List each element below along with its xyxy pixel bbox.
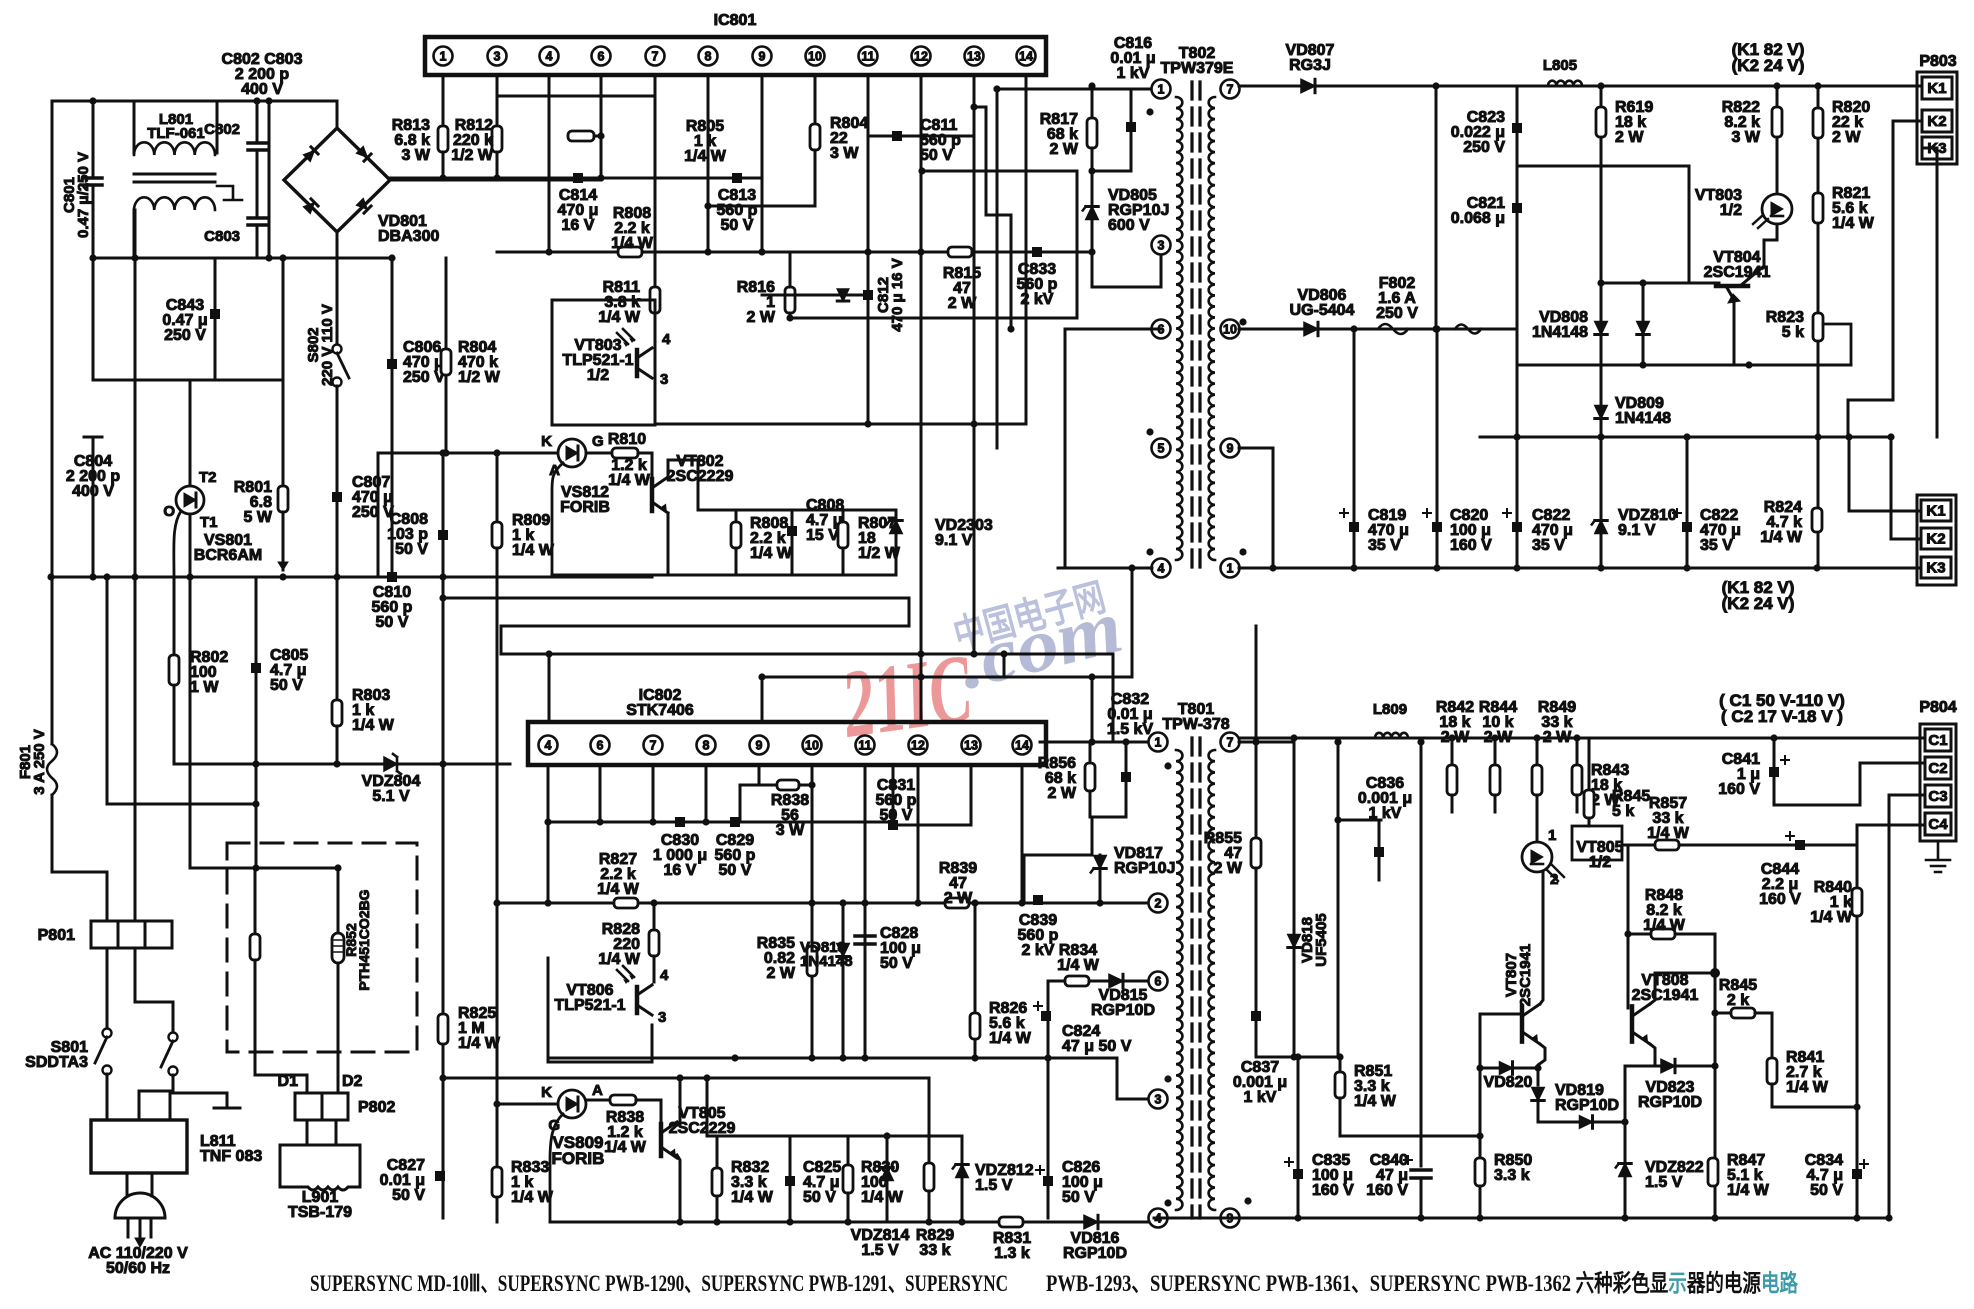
capacitor C837: [1251, 1011, 1261, 1021]
capacitor C827: [435, 1171, 445, 1181]
resistor R848: [1651, 929, 1675, 939]
wire y287: [1092, 286, 1161, 289]
svg-text:R8113.8 k1/4 W: R8113.8 k1/4 W: [598, 279, 641, 326]
node j156: [1885, 1214, 1892, 1221]
wire C804 col: [92, 450, 95, 577]
svg-text:3: 3: [1158, 238, 1165, 252]
wire K2b stub: [1891, 538, 1922, 541]
capacitor C822a: [1512, 522, 1522, 532]
node j18: [252, 800, 259, 807]
wire C832 low: [1125, 782, 1128, 817]
wire VS812 anode: [552, 463, 563, 575]
transformer T801 core: [1190, 738, 1193, 1218]
capacitor C823: [1512, 123, 1522, 133]
wire bus y252c: [972, 251, 1092, 254]
wire R838b r: [636, 1099, 661, 1102]
wire R849 low: [1536, 795, 1539, 842]
node j31: [970, 420, 977, 427]
wire S801b low: [172, 1075, 175, 1091]
wire y453: [378, 452, 557, 455]
node IC801 pin 9: [753, 47, 772, 66]
svg-text:14: 14: [1015, 738, 1029, 752]
wire R856 low: [1089, 791, 1092, 817]
wire x501: [500, 626, 503, 654]
node IC801 pin 14: [1017, 47, 1036, 66]
node j62: [1597, 564, 1604, 571]
node j88: [1122, 738, 1129, 745]
svg-text:R810: R810: [608, 431, 646, 448]
wire pin13 route: [974, 107, 1011, 329]
svg-text:R82933 k: R82933 k: [916, 1227, 954, 1259]
node j23: [493, 174, 500, 181]
wire bus y903: [497, 902, 1154, 905]
zener VD817: [1094, 856, 1106, 869]
wire pin1 drop: [442, 75, 445, 126]
wire pill1 col: [254, 868, 257, 934]
AC plug: [127, 1173, 152, 1196]
wire R834 r: [1089, 980, 1108, 983]
transformer T801 primary winding: [1176, 750, 1182, 1210]
zener VD2303: [890, 521, 902, 534]
wire R845b low: [1588, 818, 1591, 826]
svg-text:VD818UF5405: VD818UF5405: [1299, 913, 1330, 966]
wire R810 left: [586, 452, 612, 455]
svg-text:D1: D1: [278, 1073, 299, 1090]
wire x929: [928, 1078, 931, 1163]
wire bus y1218 right: [1235, 1217, 1890, 1220]
connector P803 K1: [1922, 77, 1952, 99]
node j63: [1683, 564, 1690, 571]
transformer T802 core: [1190, 82, 1193, 572]
wire VT806 frame: [548, 958, 652, 1062]
svg-text:6: 6: [1155, 974, 1162, 988]
wire x974 low: [973, 424, 976, 654]
resistor R619: [1596, 107, 1606, 137]
node j95: [839, 899, 846, 906]
capacitor C822b: [1682, 522, 1692, 532]
node j138: [1334, 738, 1341, 745]
wire x1092 drop: [1091, 677, 1094, 742]
wire VD2303 low: [895, 535, 898, 575]
resistor R808: [731, 522, 741, 548]
svg-text:C4: C4: [1928, 816, 1948, 833]
node T802 pin10: [1221, 320, 1240, 339]
wire K3 drop: [1936, 148, 1939, 437]
wire L801 left drop: [133, 101, 136, 153]
node j42c: [1007, 325, 1014, 332]
node j99: [808, 1054, 815, 1061]
wire K3 stub: [1922, 147, 1937, 150]
wire R810 right: [638, 452, 652, 455]
svg-text:4: 4: [1158, 561, 1165, 575]
wire VT803 frame: [552, 300, 655, 425]
node j136: [1290, 1053, 1297, 1060]
wire R848 l: [1628, 933, 1651, 936]
node j49: [1639, 361, 1646, 368]
capacitor C806: [387, 359, 397, 369]
wire VD818b col: [842, 903, 845, 1058]
node j76: [1128, 564, 1135, 571]
node j104: [676, 1074, 683, 1081]
node j14: [333, 760, 340, 767]
node j82: [808, 781, 815, 788]
node j77: [970, 650, 977, 657]
node j98: [731, 1054, 738, 1061]
svg-text:1.2 k1/4 W: 1.2 k1/4 W: [608, 457, 651, 489]
wire x1849 low: [1848, 437, 1851, 511]
wire R804k col: [445, 258, 448, 453]
wire C837 low: [1255, 1021, 1258, 1057]
svg-text:L809: L809: [1373, 701, 1407, 718]
diode VD823: [1661, 1059, 1675, 1072]
wire VT802 collector path: [668, 460, 698, 510]
transistor VT807: [1520, 1006, 1525, 1041]
wire C811 seg: [868, 135, 974, 138]
wire x1004: [1003, 654, 1006, 677]
resistor R833: [492, 1167, 502, 1197]
node j22: [439, 174, 446, 181]
ground below P804: [1926, 841, 1950, 872]
capacitor C804: [84, 437, 102, 450]
wire C841 col: [1773, 738, 1776, 767]
wire R857 r: [1679, 844, 1800, 847]
connector K3b: [1921, 557, 1951, 578]
svg-text:C1: C1: [1928, 732, 1947, 749]
wire R845-R841: [1755, 1013, 1772, 1058]
wire x1436: [1435, 86, 1438, 329]
node j28: [917, 248, 924, 255]
node j48: [1773, 82, 1780, 89]
inductor L801 top coil: [134, 142, 215, 155]
wire pin3 stub: [1160, 254, 1163, 287]
svg-text:VT8022SC2229: VT8022SC2229: [667, 453, 734, 485]
svg-text:K1: K1: [1926, 503, 1945, 520]
wire D1 lead: [255, 1068, 307, 1093]
svg-text:K2: K2: [1927, 113, 1946, 130]
wire C831 col: [892, 765, 895, 822]
capacitor C835: [1293, 1169, 1303, 1179]
wire P802a low: [306, 1120, 309, 1145]
wire bus y1058: [548, 1057, 1117, 1060]
diode LED VT805: [1522, 842, 1552, 872]
wire C835 col: [1297, 1057, 1300, 1172]
connector P803 K2: [1922, 110, 1952, 132]
node j8b: [47, 573, 54, 580]
resistor R805: [568, 131, 594, 141]
inductor L809: [1375, 733, 1408, 738]
wire R855 col: [1255, 626, 1258, 838]
svg-text:C810560 p50 V: C810560 p50 V: [372, 584, 413, 631]
wire C801 column lower: [92, 188, 95, 380]
svg-text:C806470 μ250 V: C806470 μ250 V: [403, 339, 445, 386]
node j94: [1096, 899, 1103, 906]
node j129: [1294, 1214, 1301, 1221]
node T801 dot3: [1164, 1199, 1171, 1206]
node j137: [1294, 1053, 1301, 1060]
svg-text:7: 7: [650, 738, 657, 752]
svg-text:G: G: [592, 433, 604, 450]
zener VDZ812: [956, 1165, 968, 1178]
node T802 dot2: [1239, 318, 1246, 325]
wire R807 col: [842, 510, 845, 522]
wire pill1 low: [254, 960, 257, 1068]
wire C806 col: [391, 258, 394, 577]
svg-text:C829560 p50 V: C829560 p50 V: [715, 832, 756, 879]
capacitor C816: [1126, 122, 1136, 132]
node j7: [388, 254, 395, 261]
node j20: [597, 132, 604, 139]
inductor L801 core: [134, 174, 215, 182]
wire VD805 low: [1091, 220, 1094, 287]
inductor L801 bottom coil: [134, 197, 215, 210]
op-amp IC801 box: [425, 37, 1046, 75]
wire row top y510: [698, 509, 896, 512]
resistor R806: [618, 247, 642, 257]
capacitor C831: [888, 820, 898, 830]
wire bus y252a: [497, 251, 618, 254]
wire R801 low: [282, 512, 285, 570]
resistor R841: [1767, 1058, 1777, 1084]
resistor R856: [1085, 763, 1095, 791]
wire x1092b: [1091, 817, 1094, 855]
wire y89 left: [995, 88, 1152, 91]
wire y845: [1624, 844, 1655, 847]
connector P802: [295, 1093, 348, 1120]
svg-text:8: 8: [703, 738, 710, 752]
wire bus y577: [51, 576, 652, 579]
fuse F801: [47, 744, 57, 795]
connector P804 C1: [1925, 729, 1951, 751]
node IC802 pin 12: [909, 736, 928, 755]
wire bus y568: [1239, 567, 1922, 570]
node T802 dot4: [1146, 548, 1153, 555]
wire left rail: [51, 101, 54, 744]
wire y1122: [1538, 1121, 1625, 1124]
wire R829 low: [928, 1191, 931, 1222]
node T801 dot1: [1164, 762, 1171, 769]
capacitor C830: [675, 817, 685, 827]
svg-text:R8341/4 W: R8341/4 W: [1057, 942, 1100, 974]
node j93: [1018, 899, 1025, 906]
svg-text:VS809FORIB: VS809FORIB: [552, 1133, 605, 1168]
diode VD801-d3: [303, 199, 318, 214]
wire pin9 loop: [1239, 447, 1273, 450]
node j54: [1814, 433, 1821, 440]
svg-text:7: 7: [1227, 735, 1234, 749]
resistor R855: [1251, 838, 1261, 868]
node j21: [704, 202, 711, 209]
transistor VT806: [635, 987, 640, 1013]
wire S801a low: [106, 1074, 109, 1120]
wire x1891 low: [1890, 437, 1893, 539]
svg-text:1: 1: [1227, 561, 1234, 575]
wire C805 col: [255, 577, 258, 764]
wire x1273: [1272, 448, 1275, 568]
wire y1099: [1117, 1098, 1150, 1101]
svg-text:R804470 k1/2 W: R804470 k1/2 W: [458, 339, 501, 386]
resistor R828: [649, 930, 659, 956]
inductor L811 box: [91, 1120, 187, 1173]
capacitor C810: [387, 572, 397, 582]
wire R801 col: [282, 380, 285, 486]
svg-text:VD815RGP10D: VD815RGP10D: [1091, 987, 1155, 1019]
svg-text:R85733 k1/4 W: R85733 k1/4 W: [1647, 795, 1690, 842]
svg-text:C813560 p50 V: C813560 p50 V: [717, 187, 758, 234]
wire C3 feed: [1889, 794, 1925, 797]
wire VDZ812 low: [961, 1178, 964, 1222]
node j66: [1433, 325, 1440, 332]
node j97: [650, 899, 657, 906]
svg-text:F8021.6 A250 V: F8021.6 A250 V: [1376, 275, 1418, 322]
wire VT805 base: [660, 1100, 663, 1124]
capacitor C807: [332, 492, 342, 502]
wire y295: [762, 294, 868, 297]
wire C826 col: [1047, 1058, 1050, 1218]
wire left rail lower: [51, 795, 54, 872]
wire R845 l: [1715, 1012, 1731, 1015]
svg-text:C814470 μ16 V: C814470 μ16 V: [558, 187, 599, 234]
wire x107 down: [106, 872, 109, 921]
svg-text:C802: C802: [204, 121, 240, 138]
wire p14 drop: [1021, 765, 1024, 903]
node j86: [702, 818, 709, 825]
node j96: [971, 899, 978, 906]
wire VT802 e bus: [552, 574, 668, 577]
wire C807 col: [336, 386, 339, 577]
resistor R845 5k: [1584, 790, 1594, 818]
node j57: [1887, 433, 1894, 440]
wire bus y822: [548, 821, 893, 824]
svg-text:(K1 82 V)(K2 24 V): (K1 82 V)(K2 24 V): [1732, 40, 1805, 75]
svg-text:6: 6: [597, 738, 604, 752]
node dashed enclosure: [227, 843, 417, 1052]
wire C841 to C2: [1774, 763, 1925, 805]
node j30: [864, 420, 871, 427]
resistor R829: [924, 1163, 934, 1191]
connector P803 K3: [1922, 137, 1952, 159]
svg-text:C3: C3: [1928, 788, 1947, 805]
node j145: [1533, 734, 1540, 741]
node j4: [89, 254, 96, 261]
wire pin6 drop: [600, 75, 603, 180]
svg-text:VT8082SC1941: VT8082SC1941: [1632, 972, 1699, 1004]
wire y1136: [707, 1135, 962, 1138]
wire x1643: [1642, 283, 1645, 365]
wire y820: [1338, 819, 1381, 822]
wire L801 left down: [133, 210, 136, 258]
node j69: [442, 449, 449, 456]
node j75: [1088, 673, 1095, 680]
node j5: [265, 254, 272, 261]
zener VDZ822: [1619, 1164, 1631, 1177]
node j102: [971, 1054, 978, 1061]
svg-text:R8503.3 k: R8503.3 k: [1494, 1152, 1532, 1184]
wire C808b low: [791, 537, 794, 575]
svg-text:C8442.2 μ160 V: C8442.2 μ160 V: [1759, 861, 1801, 908]
zener VDZ814: [881, 1168, 893, 1181]
node T801 pin1: [1149, 733, 1168, 752]
wire R807 low: [842, 548, 845, 575]
node IC802 pin 10: [803, 736, 822, 755]
thyristor VS812: [558, 439, 586, 467]
resistor R812: [492, 126, 502, 152]
wire x443 top: [442, 453, 445, 1218]
wire y742 right1: [1239, 741, 1294, 744]
svg-text:T2: T2: [199, 469, 217, 486]
node j55: [1683, 433, 1690, 440]
wire x1480: [1479, 1014, 1482, 1158]
wire R855 low: [1255, 868, 1258, 1010]
wire y981: [1048, 980, 1065, 983]
svg-text:PWB-1293、SUPERSYNC PWB-1361、SU: PWB-1293、SUPERSYNC PWB-1361、SUPERSYNC PW…: [1046, 1269, 1798, 1297]
node IC801 pin 10: [806, 47, 825, 66]
node j58: [1269, 564, 1276, 571]
node j127: [883, 1132, 890, 1139]
svg-text:C8430.47 μ250 V: C8430.47 μ250 V: [162, 297, 207, 344]
capacitor C821: [1512, 203, 1522, 213]
capacitor C832: [1121, 772, 1131, 782]
resistor R815: [948, 247, 972, 257]
wire x997 long: [996, 89, 999, 448]
svg-text:VD816RGP10D: VD816RGP10D: [1063, 1230, 1127, 1262]
node j81: [758, 673, 765, 680]
node j44: [1432, 325, 1439, 332]
node j157: [1624, 930, 1631, 937]
capacitor C841: [1769, 767, 1779, 777]
capacitor C833: [1032, 247, 1042, 257]
switch S801: [103, 1029, 112, 1038]
transistor VT803: [635, 350, 640, 376]
node IC801 pin 12: [912, 47, 931, 66]
node j132: [1621, 1214, 1628, 1221]
wire C808b col: [791, 510, 794, 525]
svg-text:10: 10: [805, 738, 819, 752]
node j60: [1433, 564, 1440, 571]
node j124: [925, 1218, 932, 1225]
node j125: [958, 1218, 965, 1225]
resistor R851: [1335, 1072, 1345, 1098]
svg-text:T1: T1: [200, 514, 218, 531]
wire VT807 emitter: [1538, 1044, 1545, 1085]
node j147: [1710, 968, 1720, 978]
capacitor C819: [1349, 522, 1359, 532]
svg-text:VD820: VD820: [1484, 1074, 1533, 1091]
svg-text:R812220 k1/2 W: R812220 k1/2 W: [451, 117, 494, 164]
node IC802 pin 13: [962, 736, 981, 755]
resistor R810: [612, 448, 638, 458]
zener VDZ804: [384, 757, 397, 771]
node j40: [993, 85, 1000, 92]
svg-text:3: 3: [660, 371, 668, 388]
wire left low: [51, 871, 54, 874]
node j2: [253, 97, 260, 104]
wire D2 lead: [337, 1068, 340, 1093]
wire VT802 emitter path: [667, 513, 670, 575]
svg-text:K: K: [541, 1084, 552, 1101]
wire VD817 col: [1099, 855, 1102, 903]
node T801 pin2: [1149, 894, 1168, 913]
wire VD820 r: [1513, 1067, 1538, 1070]
node watermark-21ic: [835, 576, 1130, 758]
wire x740: [739, 785, 742, 822]
node j84: [596, 818, 603, 825]
svg-text:K1: K1: [1927, 80, 1946, 97]
wire R843 col: [1576, 738, 1579, 765]
diode VD808: [1595, 322, 1607, 335]
wire p4 drop: [547, 765, 550, 905]
wire R817 low: [1091, 148, 1094, 206]
svg-text:2: 2: [1155, 896, 1162, 910]
